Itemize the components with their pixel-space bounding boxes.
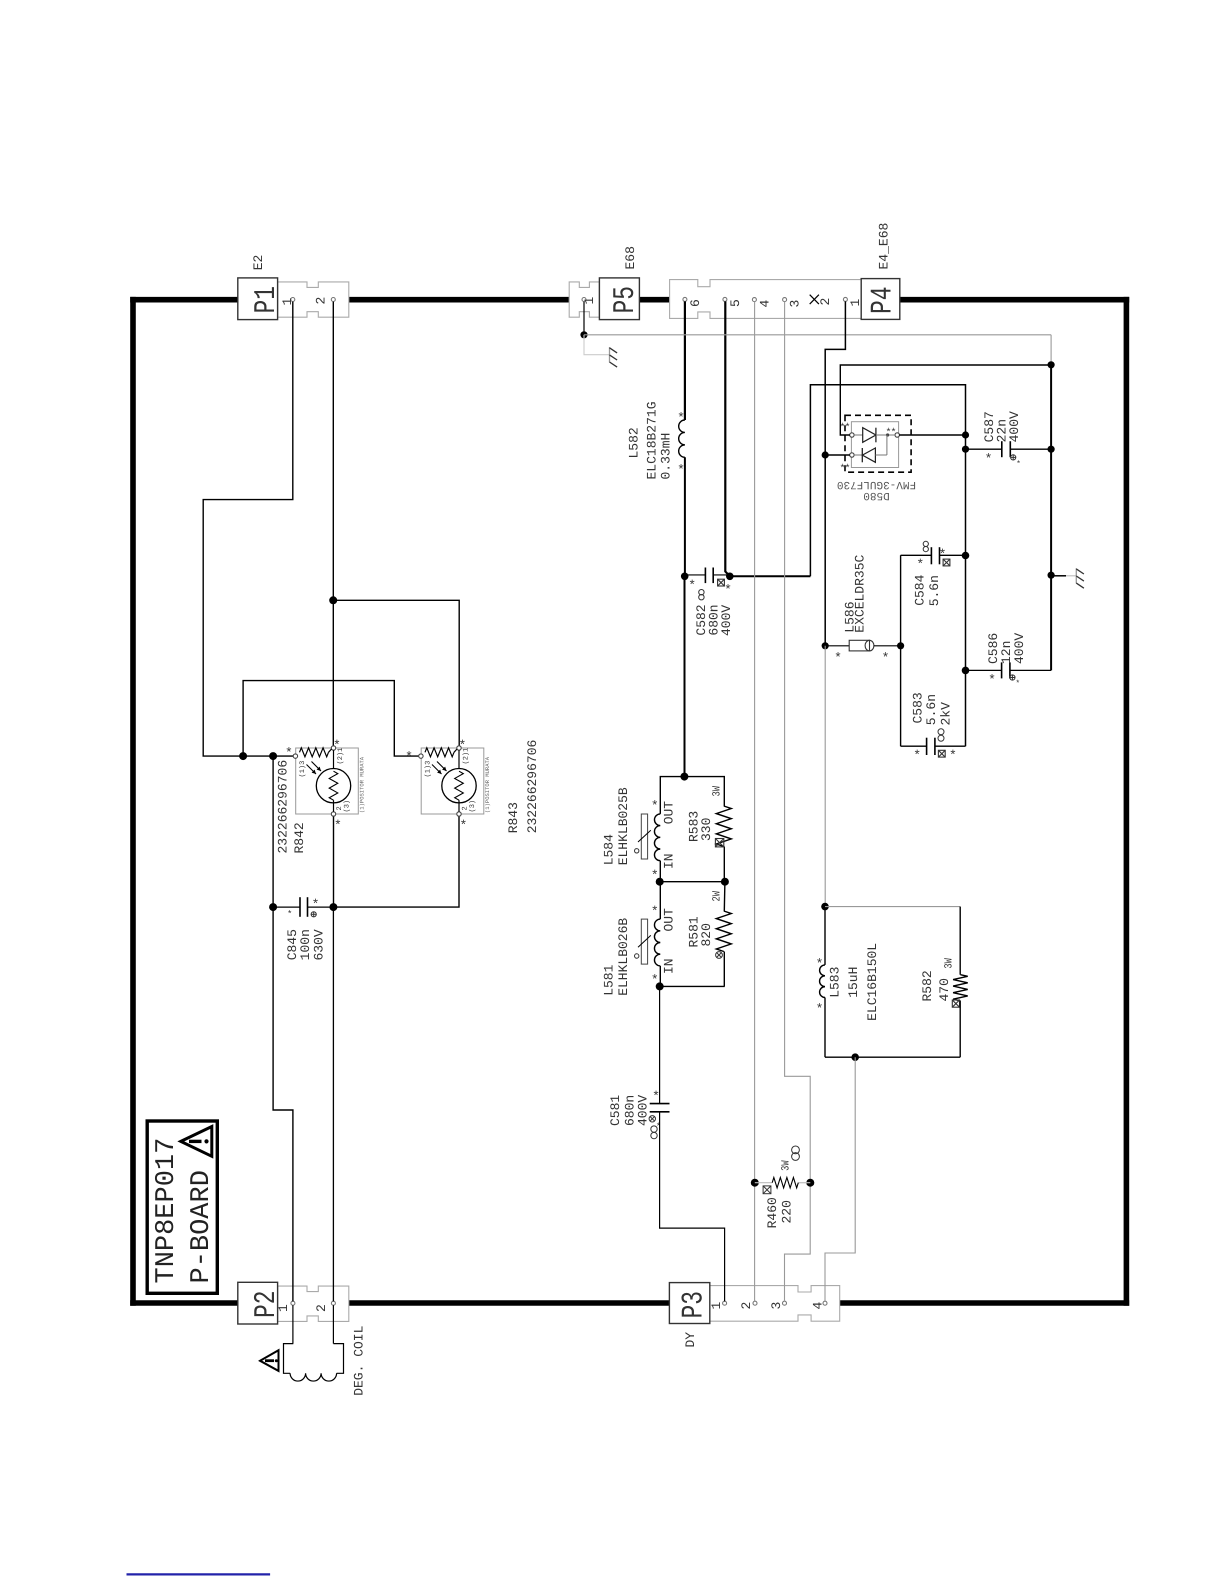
junction ground rail right: [1048, 361, 1055, 368]
svg-text:*: *: [816, 957, 824, 972]
svg-text:*: *: [844, 422, 850, 434]
wire P4.5 down to C582 right: [725, 301, 730, 576]
svg-text:*: *: [890, 427, 896, 439]
svg-text:*: *: [988, 673, 996, 688]
svg-text:*: *: [651, 799, 659, 814]
posistor R843 232266296706: [405, 738, 540, 834]
svg-text:P1: P1: [250, 286, 284, 314]
junction on R842 input node: [239, 752, 247, 760]
P4 pin 3: [783, 298, 803, 308]
svg-text:5: 5: [728, 299, 743, 307]
P2 pin 2: [314, 1301, 335, 1312]
junction L583 top: [821, 903, 829, 911]
svg-text:4: 4: [758, 300, 773, 308]
svg-text:3W: 3W: [944, 958, 956, 969]
capacitor C581 680n 400V: [608, 1089, 670, 1139]
svg-text:1: 1: [848, 299, 863, 307]
junction L586 left: [822, 642, 829, 649]
svg-text:2: 2: [739, 1302, 754, 1310]
ground symbol right: [1051, 568, 1084, 588]
posistor R842 232266296706: [276, 738, 366, 854]
svg-text:P-BOARD: P-BOARD: [187, 1170, 217, 1283]
capacitor C582 680n 400V: [685, 568, 734, 637]
resistor R582 470 3W: [825, 907, 968, 1058]
wire P4.6 down to L582: [684, 301, 686, 420]
junction L584 out left: [656, 878, 664, 886]
svg-text:1: 1: [276, 1304, 291, 1312]
wire P2.1 to DEG coil: [292, 1305, 294, 1343]
wire P4.4 to P3.2: [754, 301, 756, 1301]
svg-text:2: 2: [314, 1304, 329, 1312]
footer line: [127, 1573, 271, 1575]
wire C845 left node to P2.1: [273, 907, 293, 1301]
svg-text:*: *: [677, 463, 685, 478]
svg-text:2: 2: [818, 298, 833, 306]
svg-text:ELHKLB025B: ELHKLB025B: [616, 787, 631, 865]
svg-text:*: *: [913, 748, 921, 763]
connector P4 body: [670, 280, 862, 319]
svg-text:P5: P5: [609, 286, 643, 314]
connector P5 label box: [599, 278, 643, 320]
junction P5 ground node: [580, 331, 587, 338]
svg-text:0.33mH: 0.33mH: [659, 433, 674, 480]
wire C845 right node to P2.2: [332, 907, 334, 1301]
svg-text:*: *: [287, 909, 292, 919]
svg-text:C584: C584: [913, 574, 928, 605]
svg-text:220: 220: [780, 1200, 795, 1223]
capacitor C586 12n 400V: [966, 633, 1052, 689]
svg-text:P3: P3: [678, 1291, 712, 1319]
svg-text:*: *: [816, 1002, 824, 1017]
svg-text:5.6n: 5.6n: [924, 694, 939, 725]
wire P2.2 to DEG coil: [332, 1305, 334, 1343]
P4 pin 6: [683, 297, 703, 307]
connector P1 label box: [238, 278, 284, 320]
svg-text:EXCELDR35C: EXCELDR35C: [853, 554, 868, 632]
svg-text:R460: R460: [765, 1197, 780, 1228]
svg-text:1: 1: [709, 1302, 724, 1310]
svg-text:232266296706: 232266296706: [276, 760, 291, 854]
svg-text:DY: DY: [683, 1332, 698, 1348]
wire L583 bottom rail: [825, 1056, 960, 1058]
junction C586 left: [962, 667, 970, 675]
svg-text:P4: P4: [867, 287, 901, 315]
svg-text:*: *: [651, 904, 659, 919]
svg-text:3W: 3W: [712, 786, 724, 797]
svg-text:(1)3: (1)3: [298, 761, 307, 778]
capacitor C587 22n 400V: [962, 411, 1055, 469]
svg-text:(3): (3): [468, 800, 477, 813]
wire D580 lower-left to P4.1 net: [825, 454, 850, 456]
junction D580 lower-left: [822, 451, 829, 458]
resistor R581 820 2W: [687, 882, 732, 987]
svg-text:2kV: 2kV: [939, 702, 954, 726]
wire L582 to C582 left node: [684, 457, 686, 576]
P5 pin 1: [582, 297, 597, 305]
svg-text:*: *: [882, 651, 890, 666]
svg-text:*: *: [459, 818, 467, 833]
wire D580 top-left to ground rail: [840, 365, 1051, 435]
svg-text:OUT: OUT: [662, 801, 677, 825]
wire L581 output rail: [660, 985, 725, 987]
connector P1 body: [278, 282, 349, 317]
wire P1.1 to R842/R843 node: [203, 302, 293, 756]
svg-text:R842: R842: [292, 822, 307, 853]
svg-text:IN: IN: [662, 853, 677, 869]
junction L584 out right: [721, 878, 729, 886]
svg-text:C581: C581: [608, 1095, 623, 1126]
svg-text:*: *: [834, 651, 842, 666]
warning triangle in title block: [181, 1127, 212, 1157]
P4 pin 1: [843, 297, 863, 306]
svg-text:*: *: [985, 452, 993, 467]
svg-text:ELC16B150L: ELC16B150L: [865, 943, 880, 1021]
connector P5 body: [569, 282, 599, 317]
svg-text:*: *: [916, 557, 924, 572]
svg-text:(3): (3): [343, 800, 352, 813]
ground rail wire to right side: [584, 335, 1051, 365]
svg-text:820: 820: [699, 923, 714, 946]
inductor L583 15uH ELC16B150L: [816, 907, 880, 1058]
svg-text:*: *: [844, 463, 850, 475]
svg-text:*: *: [652, 1089, 660, 1104]
wire L581 out down to C581: [659, 986, 661, 1103]
svg-text:R582: R582: [920, 970, 935, 1001]
svg-text:*: *: [677, 411, 685, 426]
svg-text:TNP8EP017: TNP8EP017: [152, 1138, 182, 1284]
wire R842 node to R843 left terminal: [243, 681, 419, 757]
connector P2 label box: [238, 1282, 284, 1324]
wire L583 bottom to P3.4: [825, 1057, 855, 1301]
wire C582 right to D580 right branch: [730, 385, 966, 746]
junction L586 right: [897, 642, 904, 649]
ground symbol at P5: [584, 335, 617, 367]
svg-text:330: 330: [699, 818, 714, 841]
junction P1.2 branch: [329, 596, 337, 604]
line filter L584 ELHKLB025B: [602, 777, 685, 883]
svg-text:*: *: [688, 578, 696, 593]
svg-text:3W: 3W: [781, 1160, 793, 1171]
junction C582 left: [681, 573, 689, 581]
svg-text:FMV-3GULF730: FMV-3GULF730: [837, 478, 916, 490]
P4 pin 4: [752, 298, 772, 308]
svg-text:ELHKLB026B: ELHKLB026B: [616, 918, 631, 996]
P3 pin 1: [709, 1301, 727, 1309]
svg-text:3: 3: [788, 300, 803, 308]
svg-text:OUT: OUT: [662, 908, 677, 932]
svg-text:IN: IN: [662, 958, 677, 974]
capacitor C583 5.6n 2kV: [901, 692, 966, 763]
resistor R583 330 3W: [684, 777, 731, 882]
svg-text:400V: 400V: [719, 605, 734, 636]
svg-text:L581: L581: [602, 964, 617, 995]
wire D580 right output: [899, 434, 965, 436]
wire L584 output rail: [660, 881, 725, 883]
connector P2 body: [278, 1286, 349, 1321]
svg-text:400V: 400V: [1012, 633, 1027, 664]
svg-text:5.6n: 5.6n: [927, 575, 942, 606]
wire C845 left node vertical: [272, 756, 274, 907]
wire R843 bottom to C845 right node: [333, 816, 459, 907]
svg-text:*: *: [724, 583, 732, 598]
wire branch to R843 top terminal: [333, 600, 459, 746]
wire P1.2 down to R842 top terminal: [332, 302, 334, 746]
svg-text:ELC18B271G: ELC18B271G: [645, 401, 660, 479]
P3 pin 4: [811, 1301, 828, 1309]
junction C584 right: [962, 552, 970, 560]
svg-text:470: 470: [937, 978, 952, 1001]
svg-text:(2)1: (2)1: [462, 748, 471, 765]
svg-text:(1)POSITOR MURATA: (1)POSITOR MURATA: [484, 756, 491, 813]
title block TNP8EP017 P-BOARD: [147, 1121, 217, 1293]
svg-text:2W: 2W: [712, 891, 724, 902]
P4 pin 5: [723, 297, 743, 307]
P2 pin 1: [276, 1301, 295, 1312]
wire P4.3 to P3.3: [785, 301, 811, 1301]
svg-text:*: *: [1015, 679, 1020, 688]
svg-text:*: *: [334, 818, 342, 833]
P5 ref label E68: [623, 246, 638, 269]
wire P5.1 to ground junction: [583, 302, 585, 335]
connector P3 body: [710, 1286, 840, 1322]
svg-text:E2: E2: [251, 255, 266, 271]
svg-text:*: *: [1016, 460, 1021, 469]
svg-text:3: 3: [769, 1302, 784, 1310]
wire C582 left node down to L584: [684, 576, 686, 776]
P3 pin 3: [769, 1301, 787, 1309]
svg-text:630V: 630V: [312, 929, 327, 960]
svg-text:E4_E68: E4_E68: [877, 223, 892, 270]
svg-text:*: *: [285, 746, 293, 761]
resistor R460 220 3W: [751, 1146, 815, 1228]
svg-text:(2)1: (2)1: [336, 748, 345, 765]
junction L583 bottom: [851, 1053, 859, 1061]
svg-text:R843: R843: [506, 802, 521, 833]
capacitor C584 5.6n: [901, 541, 966, 606]
svg-text:*: *: [949, 748, 957, 763]
svg-text:(1)POSITOR MURATA: (1)POSITOR MURATA: [359, 756, 366, 813]
svg-text:15uH: 15uH: [846, 967, 861, 998]
connector P3 label box: [669, 1283, 711, 1324]
svg-text:4: 4: [811, 1302, 826, 1310]
P4 ref label E4_E68: [877, 223, 892, 270]
junction L584 input: [680, 773, 688, 781]
connector P4 label box: [861, 279, 900, 320]
capacitor C845 100n 630V: [269, 897, 337, 960]
svg-text:*: *: [312, 897, 320, 912]
bead inductor L586 EXCELDR35C: [825, 554, 900, 665]
svg-text:232266296706: 232266296706: [525, 740, 540, 834]
svg-text:L582: L582: [627, 427, 642, 458]
svg-text:E68: E68: [623, 246, 638, 269]
wire P4.1 down to D580: [825, 301, 845, 645]
wire C581 to P3.1: [660, 1112, 725, 1302]
P4 pin 2 (not connected, X mark): [810, 295, 833, 306]
degaussing coil DEG. COIL: [284, 1326, 367, 1396]
warning triangle at DEG coil: [260, 1350, 278, 1371]
junction L581 out: [656, 982, 664, 990]
wire L586 right loop (C584/C583): [900, 555, 902, 746]
P3 label DY: [683, 1332, 698, 1348]
svg-text:2: 2: [314, 297, 329, 305]
inductor L582 ELC18B271G 0.33mH: [627, 401, 685, 479]
svg-text:DEG. COIL: DEG. COIL: [352, 1326, 367, 1396]
svg-text:400V: 400V: [636, 1095, 651, 1126]
junction to C845 left: [269, 752, 277, 760]
wire right vertical 1051: [1050, 365, 1052, 671]
svg-text:400V: 400V: [1007, 411, 1022, 442]
svg-text:6: 6: [688, 299, 703, 307]
P1 ref label E2: [251, 255, 266, 271]
svg-text:*: *: [405, 749, 413, 764]
svg-text:*: *: [939, 547, 947, 562]
junction ground stub: [1048, 572, 1055, 579]
junction D580 right: [962, 431, 969, 438]
P1 pin 1: [280, 298, 295, 306]
line filter L581 ELHKLB026B: [602, 882, 677, 996]
diode bridge D580 FMV-3GULF730: [837, 415, 916, 501]
junction C582 right: [726, 573, 734, 581]
svg-text:L583: L583: [828, 967, 843, 998]
svg-text:D580: D580: [863, 489, 889, 501]
svg-text:(1)3: (1)3: [424, 761, 433, 778]
P1 pin 2: [314, 297, 336, 305]
svg-text:L584: L584: [602, 834, 617, 865]
wire L586 left down to L583: [824, 646, 826, 907]
P3 pin 2: [739, 1301, 757, 1309]
wire R842 bottom to C845 right node: [333, 816, 335, 907]
